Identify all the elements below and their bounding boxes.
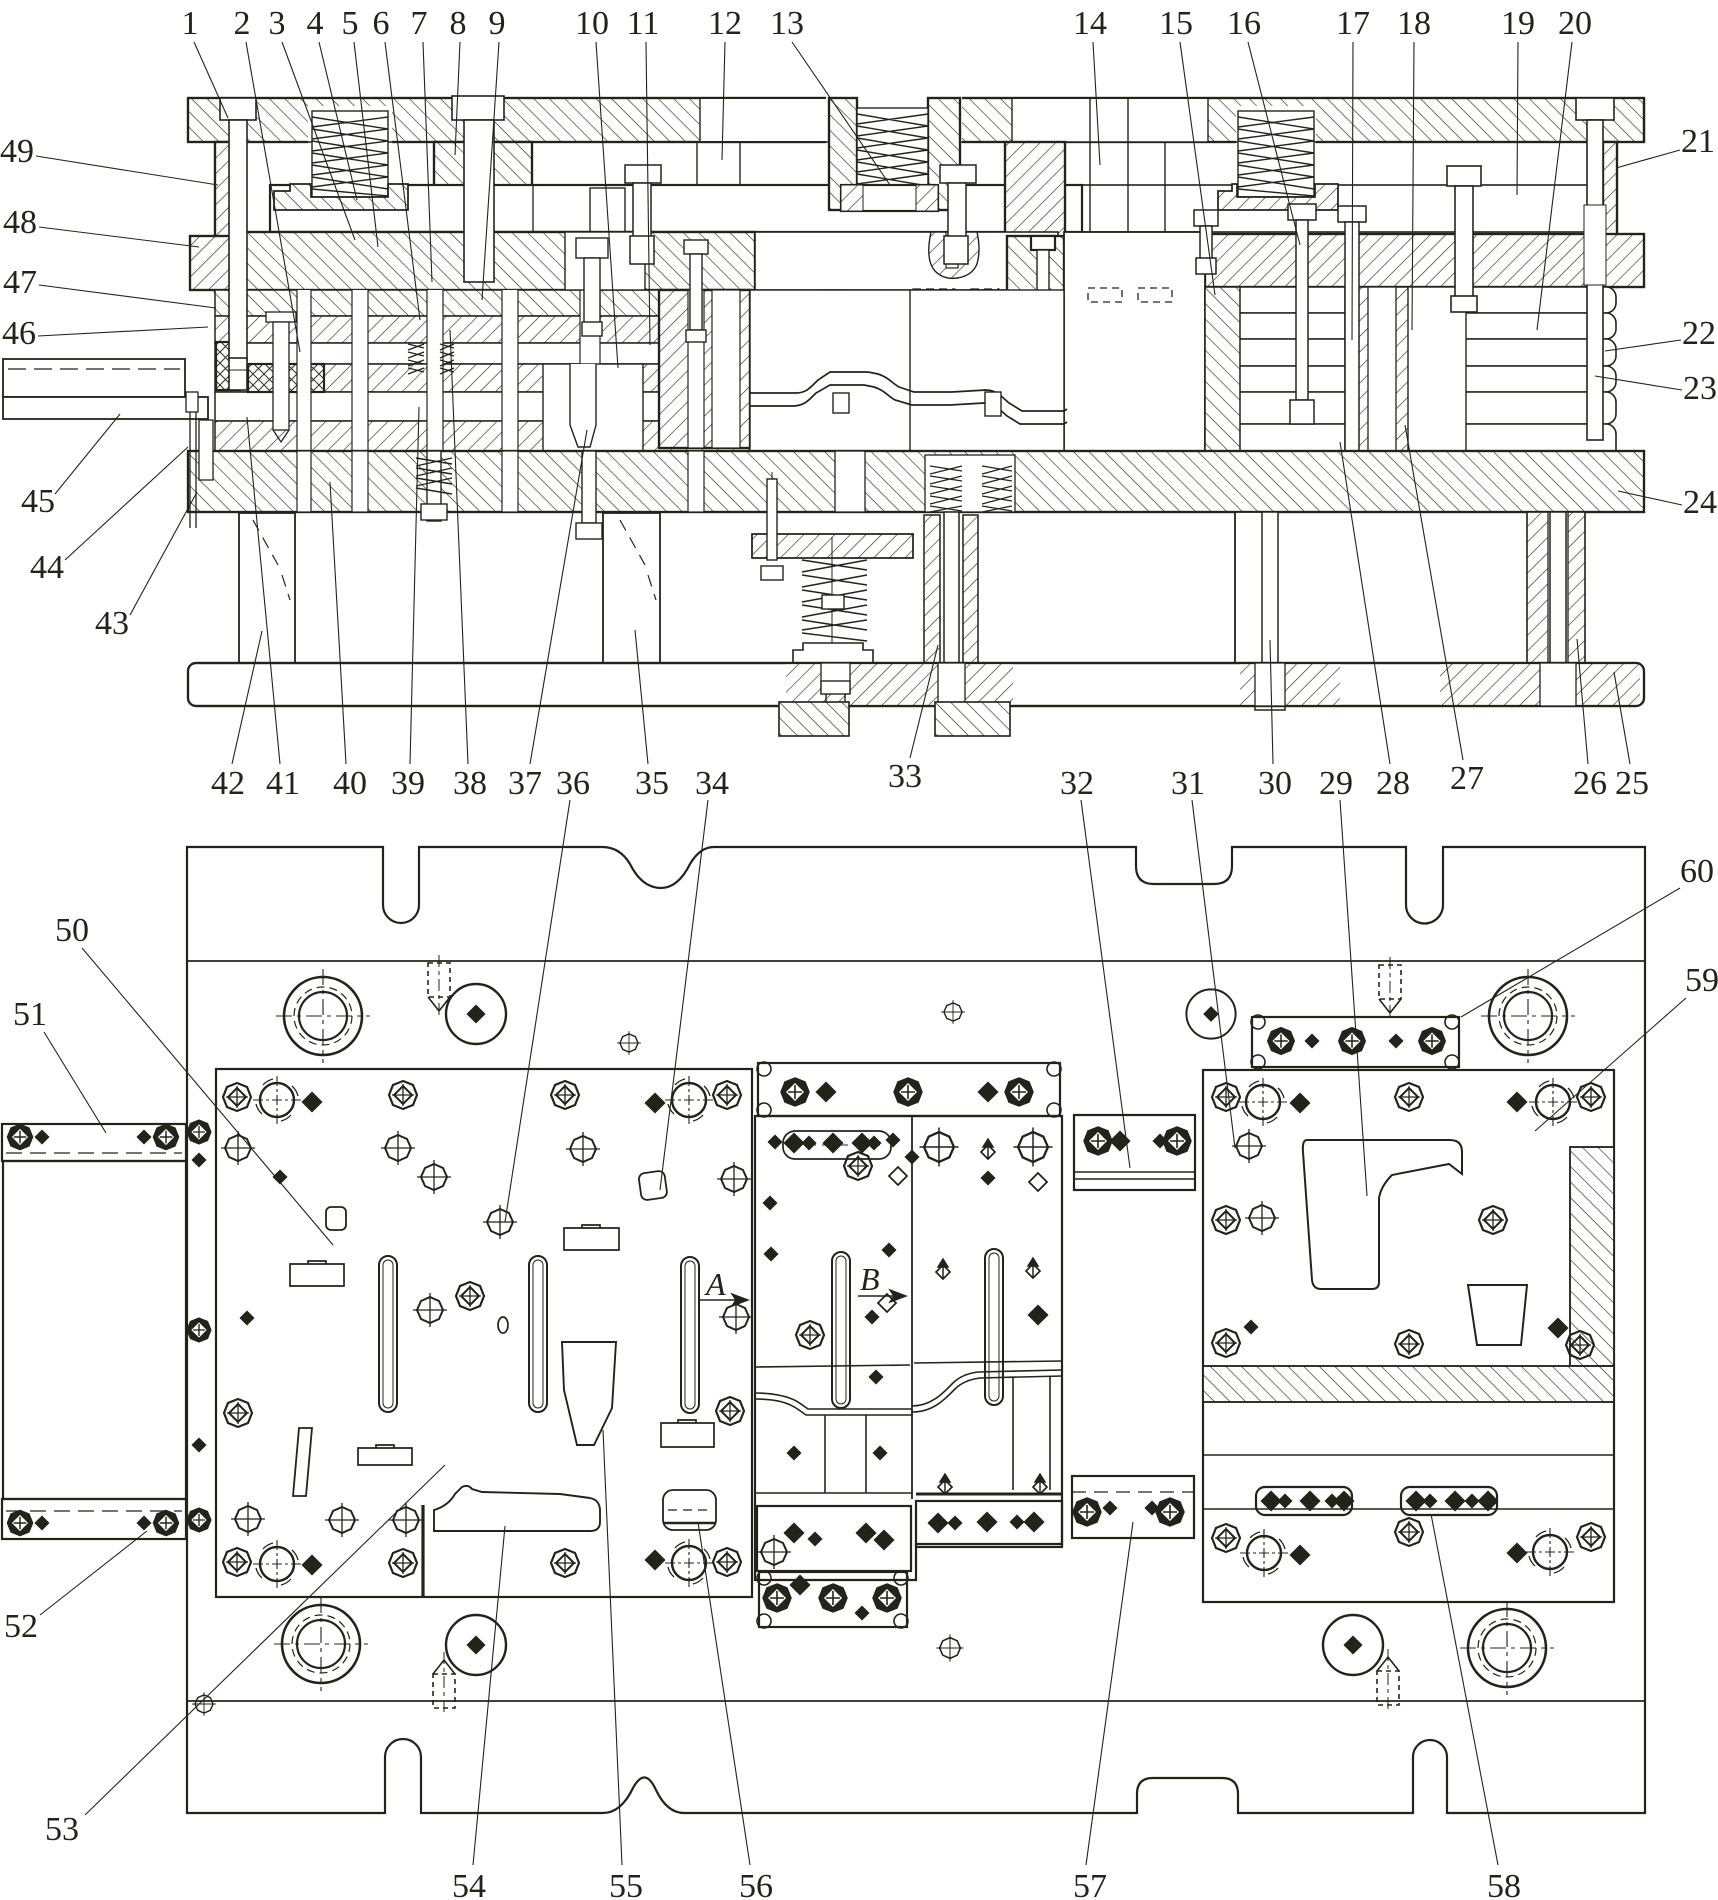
plate 57 internals (1073, 1498, 1101, 1526)
svg-text:45: 45 (21, 483, 55, 520)
part window (750, 290, 1064, 451)
right laminated stack (1205, 287, 1616, 460)
bottom plate (188, 663, 1644, 706)
R hatched L-strip vertical (1570, 1147, 1614, 1366)
svg-text:50: 50 (55, 912, 89, 949)
plate R internals (1212, 1078, 1605, 1577)
strip plate 60 (1252, 1017, 1459, 1067)
plate L internals (221, 1076, 753, 1597)
backing plate right band (1205, 234, 1644, 287)
svg-text:33: 33 (888, 758, 922, 795)
outrigger screws (7, 1124, 32, 1149)
feet (779, 702, 849, 736)
R strip pads (1256, 1487, 1352, 1515)
plate 57 (1072, 1476, 1194, 1538)
middle column main block (755, 1116, 1062, 1580)
middle column top strip (758, 1063, 1060, 1116)
guide bushing TL (276, 969, 370, 1063)
spring S3 right (1238, 111, 1314, 197)
R gamma cutout (1303, 1140, 1462, 1289)
svg-text:28: 28 (1376, 765, 1410, 802)
spring bracket 1 (274, 184, 408, 210)
bolt in riser 30 (1255, 512, 1285, 710)
svg-text:21: 21 (1681, 123, 1715, 160)
labels plan view (4, 853, 1718, 1900)
left laminated stack rows (215, 290, 756, 451)
guide bushing BL (274, 1597, 368, 1691)
svg-text:3: 3 (269, 5, 286, 42)
svg-text:49: 49 (0, 133, 34, 170)
svg-text:26: 26 (1573, 765, 1607, 802)
svg-text:59: 59 (1685, 962, 1718, 999)
svg-text:8: 8 (450, 5, 467, 42)
wire (187, 1700, 1645, 1702)
upper pad plate (270, 185, 1082, 232)
lower die base plate outline (187, 847, 1645, 1813)
svg-text:53: 53 (45, 1811, 79, 1848)
riser columns mid with bolt (924, 515, 940, 663)
column 15 (1005, 142, 1065, 290)
middle lower pads (757, 1506, 911, 1571)
svg-text:47: 47 (3, 264, 37, 301)
punch in window (570, 364, 596, 447)
screw head pocket under flange (821, 681, 850, 706)
lifter springs in die plate (930, 466, 1012, 512)
svg-text:25: 25 (1615, 765, 1649, 802)
small hole (941, 1000, 965, 1024)
risers (239, 512, 1270, 663)
right plate R outline (1203, 1070, 1614, 1602)
svg-text:11: 11 (627, 5, 660, 42)
bolt with spring under left stack (416, 451, 602, 539)
spring S1 (312, 111, 388, 197)
svg-text:48: 48 (3, 204, 37, 241)
left outrigger body (3, 1161, 186, 1499)
top plate (188, 98, 1644, 142)
mid hatched column with bolt (1007, 236, 1064, 329)
bolt right 21 long (1576, 98, 1614, 440)
svg-text:39: 39 (391, 765, 425, 802)
middle part profile lines (755, 1361, 1062, 1501)
X hatched feed blocks (248, 364, 324, 392)
svg-text:20: 20 (1558, 5, 1592, 42)
base margin screws (187, 1120, 211, 1144)
svg-text:41: 41 (266, 765, 300, 802)
dashed stud bottom-right (1377, 1649, 1399, 1713)
svg-text:23: 23 (1683, 370, 1717, 407)
guide bushing TR (1481, 969, 1575, 1063)
bolts fastening upper pad (625, 165, 976, 264)
svg-text:10: 10 (575, 5, 609, 42)
svg-text:29: 29 (1319, 765, 1353, 802)
svg-text:38: 38 (453, 765, 487, 802)
upper left wall (215, 142, 237, 292)
svg-text:32: 32 (1060, 765, 1094, 802)
svg-text:9: 9 (489, 5, 506, 42)
guide bushing BR (1460, 1601, 1554, 1695)
small bolts hanging under backing plate (565, 232, 708, 342)
svg-text:56: 56 (739, 1868, 773, 1900)
guide pillar 8 (452, 96, 504, 282)
svg-text:4: 4 (307, 5, 324, 42)
svg-text:52: 52 (4, 1608, 38, 1645)
svg-text:5: 5 (342, 5, 359, 42)
bolt 15 small (1194, 210, 1218, 274)
svg-text:24: 24 (1683, 484, 1717, 521)
bolt 1 long left (220, 98, 256, 390)
dashed stud bottom-left (433, 1652, 455, 1716)
stripper window (543, 364, 643, 451)
dashed stud top-right (1379, 957, 1401, 1021)
pilot circle BL (446, 1615, 506, 1675)
svg-text:12: 12 (708, 5, 742, 42)
svg-text:22: 22 (1682, 315, 1716, 352)
svg-text:46: 46 (2, 315, 36, 352)
bolt 20 (1288, 204, 1316, 424)
svg-text:14: 14 (1073, 5, 1107, 42)
svg-text:16: 16 (1227, 5, 1261, 42)
punch tip tabs below punch holder (819, 290, 845, 302)
svg-text:60: 60 (1680, 853, 1714, 890)
svg-text:1: 1 (182, 5, 199, 42)
svg-text:37: 37 (508, 765, 542, 802)
svg-text:40: 40 (333, 765, 367, 802)
small hole (936, 1634, 963, 1661)
pin head flange and small springs in stack (266, 312, 454, 442)
die block column right of left stack (659, 290, 750, 448)
svg-text:B: B (860, 1261, 880, 1297)
left feed rail 45 (3, 359, 208, 419)
svg-text:2: 2 (234, 5, 251, 42)
plate 32 between columns (1074, 1115, 1195, 1190)
svg-text:51: 51 (13, 996, 47, 1033)
R trapezoid cutout (1468, 1285, 1527, 1345)
svg-text:18: 18 (1397, 5, 1431, 42)
dashed stud top-left (428, 955, 450, 1019)
left outrigger bottom strip (2, 1499, 186, 1539)
small hole (192, 1692, 216, 1716)
pilot circle TL (446, 984, 506, 1044)
pin channels through stack (297, 290, 600, 451)
bolt 17 long (1338, 206, 1366, 470)
plate 32 internals (1084, 1127, 1112, 1155)
wire (187, 960, 1645, 962)
svg-text:43: 43 (95, 605, 129, 642)
svg-text:17: 17 (1336, 5, 1370, 42)
svg-text:30: 30 (1258, 765, 1292, 802)
svg-text:27: 27 (1450, 760, 1484, 797)
pilot circle BR (1323, 1615, 1383, 1675)
backing plate left band (190, 236, 240, 290)
svg-text:A: A (704, 1266, 726, 1302)
right wall riser 26 (1527, 512, 1585, 663)
left outrigger top strip (2, 1124, 186, 1161)
svg-text:54: 54 (452, 1868, 486, 1900)
R hatched strip horizontal (1203, 1366, 1614, 1402)
right wall 21 (1603, 142, 1617, 287)
wire (188, 141, 1644, 143)
svg-text:7: 7 (411, 5, 428, 42)
svg-text:15: 15 (1159, 5, 1193, 42)
svg-text:35: 35 (635, 765, 669, 802)
svg-text:31: 31 (1171, 765, 1205, 802)
svg-text:55: 55 (609, 1868, 643, 1900)
svg-text:42: 42 (211, 765, 245, 802)
pilot circle TR (1186, 989, 1235, 1038)
right pad band (1082, 185, 1603, 232)
svg-text:57: 57 (1073, 1868, 1107, 1900)
workpiece strip profile (750, 372, 1067, 424)
svg-text:44: 44 (30, 549, 64, 586)
svg-text:34: 34 (695, 765, 729, 802)
lower bracket and spring assembly (752, 534, 913, 558)
bolt 19 (1447, 166, 1481, 312)
parts 43 44 small (186, 392, 213, 528)
spring S2 mid (829, 98, 857, 210)
mid white block under part (1064, 232, 1205, 460)
left stripper plate L outline (216, 1069, 752, 1597)
svg-text:58: 58 (1487, 1868, 1521, 1900)
column block 8 (434, 142, 532, 290)
die plate band (188, 451, 1644, 512)
svg-text:36: 36 (556, 765, 590, 802)
middle column internals (757, 1078, 1053, 1619)
small hole (617, 1031, 641, 1055)
svg-text:13: 13 (770, 5, 804, 42)
svg-text:19: 19 (1501, 5, 1535, 42)
svg-text:6: 6 (373, 5, 390, 42)
labels top view (0, 5, 1717, 1222)
